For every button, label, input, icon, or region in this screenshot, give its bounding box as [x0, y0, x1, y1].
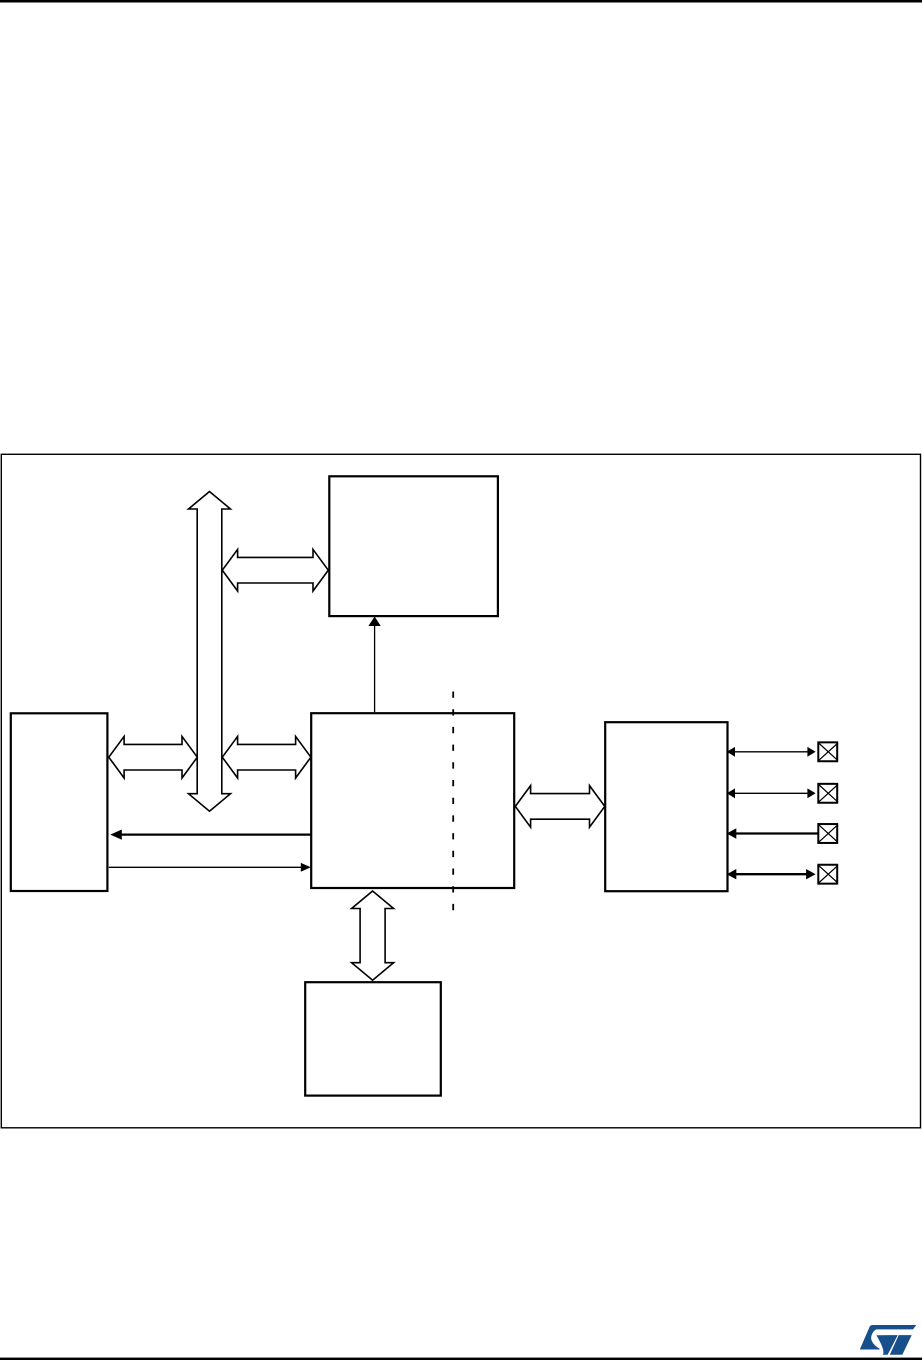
box: bottom	[305, 982, 441, 1095]
dashed partition line in central box	[452, 692, 454, 914]
box: top (RAM)	[329, 476, 498, 616]
pin row 1: crossed pad	[818, 742, 837, 761]
hollow horizontal double arrow: central to right box	[515, 786, 605, 828]
hollow horizontal double arrow: left box to bus	[109, 736, 198, 778]
hollow horizontal double arrow: bus to top box	[222, 549, 328, 591]
box: central (core)	[311, 713, 514, 888]
hollow horizontal double arrow: bus to central box	[222, 736, 311, 778]
box: left	[11, 713, 108, 891]
box: right (I/O)	[605, 722, 727, 891]
pin row 3: single arrow line (thick)	[735, 832, 818, 834]
ST logo	[860, 1325, 917, 1355]
bottom footer rule	[0, 1358, 922, 1360]
pin row 2: double arrow line	[733, 792, 809, 794]
top header rule	[0, 0, 922, 3]
thin arrow up: central box to top box	[374, 625, 376, 712]
figure frame	[1, 454, 920, 1128]
thin arrow: left box to central box (points right)	[109, 866, 302, 868]
pin row 4: double arrow line (thick)	[735, 873, 808, 875]
pin row 3: crossed pad	[818, 824, 837, 843]
hollow vertical double arrow (big bus)	[189, 492, 231, 812]
pin row 2: crossed pad	[818, 784, 837, 803]
hollow vertical double arrow: central to bottom box	[352, 891, 394, 980]
pin row 4: crossed pad	[818, 865, 837, 884]
thin arrow: central box to left box (points left)	[121, 833, 312, 835]
pin row 1: double arrow line	[733, 751, 809, 753]
